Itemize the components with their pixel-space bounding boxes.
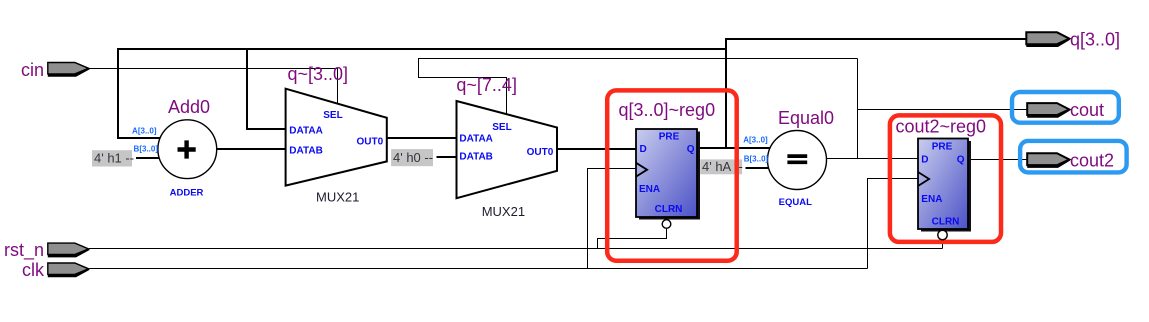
constant 4'hA (700, 159, 743, 174)
wire rst_n rail (89, 248, 943, 250)
svg-text:CLRN: CLRN (932, 216, 960, 227)
svg-text:EQUAL: EQUAL (779, 197, 812, 208)
wire Equal0 net riser (857, 59, 859, 159)
svg-text:q~[7..4]: q~[7..4] (456, 75, 517, 95)
svg-text:q~[3..0]: q~[3..0] (288, 64, 349, 84)
svg-text:DATAA: DATAA (459, 133, 493, 144)
wire rst_n to FF1 CLRN (598, 229, 667, 249)
svg-text:PRE: PRE (659, 132, 680, 143)
svg-text:DATAB: DATAB (459, 151, 493, 162)
svg-text:A[3..0]: A[3..0] (132, 126, 157, 135)
output pin cout2 (1027, 150, 1114, 170)
output pin cout (1027, 100, 1104, 120)
svg-text:SEL: SEL (323, 110, 342, 121)
flip-flop cout2~reg0 CLRN bubble (938, 230, 947, 239)
svg-text:4' h1 --: 4' h1 -- (94, 151, 134, 166)
svg-text:q[3..0]: q[3..0] (1070, 30, 1120, 50)
output pin q[3..0] (1026, 30, 1120, 50)
svg-text:PRE: PRE (932, 142, 953, 153)
wire q feedback branch to MUX21 DATAA (247, 48, 286, 129)
svg-text:Equal0: Equal0 (778, 108, 834, 128)
svg-text:Q: Q (957, 155, 965, 166)
svg-text:cin: cin (21, 60, 44, 80)
svg-text:cout: cout (1070, 100, 1104, 120)
svg-text:B[3..0]: B[3..0] (134, 145, 159, 154)
svg-text:MUX21: MUX21 (316, 189, 359, 204)
flip-flop q[3..0]~reg0 (619, 100, 716, 228)
mux MUX21 q~[3..0] (286, 64, 387, 205)
wire constant 4'h0 to MUX21 q~[7..4] DATAB (436, 156, 456, 158)
wire q bus to output pin q[3..0] (725, 38, 1027, 40)
svg-text:cout2~reg0: cout2~reg0 (896, 117, 987, 137)
wire Equal0 net to MUX21 q~[7..4] SEL (419, 59, 858, 115)
constant 4'h0 (391, 149, 433, 166)
svg-text:rst_n: rst_n (4, 240, 44, 261)
svg-text:CLRN: CLRN (655, 204, 683, 215)
input pin rst_n (4, 240, 90, 261)
svg-text:D: D (640, 144, 647, 155)
svg-text:ADDER: ADDER (170, 187, 204, 198)
constant 4'h1 (92, 150, 134, 166)
svg-text:MUX21: MUX21 (482, 204, 525, 219)
comparator Equal0 (743, 108, 834, 208)
wire FF2 Q to output pin cout2 (969, 159, 1029, 161)
svg-text:clk: clk (22, 260, 45, 280)
wire Add0 OUT to MUX21 DATAB (217, 148, 287, 150)
wire clk to FF1 clock (588, 169, 637, 269)
mux MUX21 q~[7..4] (456, 75, 557, 219)
svg-text:OUT0: OUT0 (357, 137, 384, 148)
svg-text:OUT0: OUT0 (527, 147, 554, 158)
wire clk to FF2 clock (868, 179, 919, 269)
wire q feedback bus: FF1 Q to Equal0 A (697, 147, 771, 149)
svg-text:Add0: Add0 (168, 97, 210, 117)
svg-text:SEL: SEL (492, 122, 511, 133)
svg-text:ENA: ENA (921, 194, 942, 205)
svg-text:4' h0 --: 4' h0 -- (393, 150, 433, 165)
wire MUX21 q~[3..0] OUT0 to MUX21 q~[7..4] DATAA (387, 137, 457, 139)
wire clk rail (90, 268, 868, 270)
highlight box around cout (1012, 92, 1119, 123)
highlight box around cout2~reg0 (890, 115, 1001, 241)
wire q feedback bus riser to top (725, 38, 727, 148)
svg-text:DATAB: DATAB (289, 146, 323, 157)
svg-text:D: D (921, 155, 928, 166)
svg-text:DATAA: DATAA (289, 125, 323, 136)
svg-text:B[3..0]: B[3..0] (744, 155, 769, 164)
highlight box around cout2 (1020, 141, 1127, 173)
wire constant 4'hA to Equal0 B (746, 167, 770, 169)
svg-text:q[3..0]~reg0: q[3..0]~reg0 (619, 100, 716, 120)
svg-text:ENA: ENA (639, 184, 660, 195)
svg-text:A[3..0]: A[3..0] (743, 136, 768, 145)
highlight box around q[3..0]~reg0 (607, 90, 737, 260)
svg-text:cout2: cout2 (1070, 150, 1114, 170)
input pin cin (21, 60, 90, 80)
wire MUX21 q~[7..4] OUT0 to FF1 D (557, 148, 637, 150)
input pin clk (22, 260, 90, 280)
wire constant 4'h1 to Add0 B (136, 157, 160, 159)
adder Add0 (132, 97, 217, 198)
wire rst_n to FF2 CLRN (942, 239, 944, 248)
flip-flop cout2~reg0 (896, 117, 987, 232)
svg-text:Q: Q (687, 144, 695, 155)
wire Equal0 OUT to FF2 D (827, 158, 919, 160)
wire Equal0 net to output pin cout (858, 109, 1029, 111)
wire q feedback branch to Add0 A (118, 48, 161, 138)
wire cin to MUX21 q~[3..0] SEL (89, 69, 338, 104)
wire q feedback bus top rail (118, 48, 726, 50)
